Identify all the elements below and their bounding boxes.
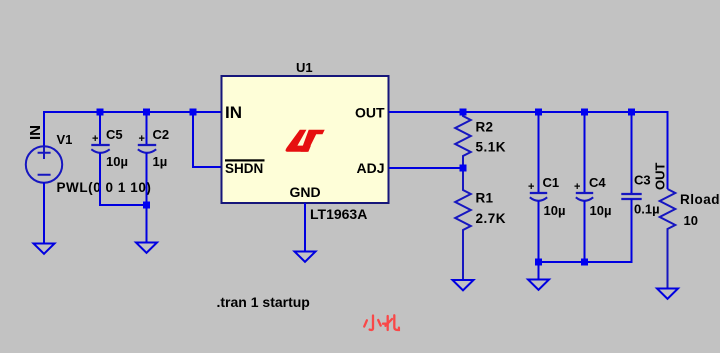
node junction bottom rail C4 [581, 259, 588, 266]
label Rload value [684, 213, 698, 228]
svg-text:+: + [92, 133, 98, 145]
ground (V1) [34, 244, 55, 254]
wire C5 bottom stub [100, 153, 147, 205]
svg-text:GND: GND [289, 184, 320, 200]
node junction OUT rail C4 [581, 109, 588, 116]
svg-text:C3: C3 [634, 173, 651, 188]
wire caps ground drop [538, 261, 540, 280]
spice directive .tran [217, 294, 310, 310]
net label IN [27, 125, 44, 140]
svg-text:10µ: 10µ [106, 154, 128, 169]
svg-text:PWL(0 0 1 10): PWL(0 0 1 10) [57, 180, 152, 195]
resistor R2 [455, 112, 471, 168]
svg-text:0.1µ: 0.1µ [634, 202, 660, 217]
wire top rail from V1 to IC IN [44, 111, 221, 113]
svg-text:10µ: 10µ [544, 203, 566, 218]
node junction OUT rail C3 [628, 109, 635, 116]
svg-text:10µ: 10µ [590, 203, 612, 218]
label R1 value [476, 211, 507, 226]
svg-text:ADJ: ADJ [356, 160, 384, 176]
ground (C1 C4 C3) [528, 280, 549, 290]
label C3 value [634, 202, 660, 217]
wire C3 drop [631, 112, 633, 194]
svg-text:C5: C5 [106, 127, 123, 142]
svg-text:2.7K: 2.7K [476, 211, 507, 226]
svg-text:IN: IN [27, 125, 44, 140]
svg-text:U1: U1 [296, 60, 313, 75]
pin OUT [355, 105, 385, 121]
svg-text:C4: C4 [589, 175, 606, 190]
wire C4 bottom [584, 201, 586, 261]
node junction top rail SHDN [190, 109, 197, 116]
svg-text:Rload: Rload [680, 192, 720, 207]
pin SHDN [225, 159, 265, 176]
net label OUT [653, 163, 668, 191]
label R2 value [476, 140, 507, 155]
label U1 [296, 60, 313, 75]
resistor Rload [660, 189, 676, 289]
svg-text:+: + [139, 133, 145, 145]
svg-text:+: + [528, 181, 534, 193]
capacitor C1 [528, 181, 547, 201]
node junction OUT rail R2 [460, 109, 467, 116]
svg-text:10: 10 [684, 213, 698, 228]
svg-text:OUT: OUT [355, 105, 385, 121]
svg-text:+: + [574, 181, 580, 193]
pin ADJ [356, 160, 384, 176]
label C5 [106, 127, 123, 142]
wire SHDN tee [193, 112, 221, 167]
svg-text:C1: C1 [543, 175, 560, 190]
wire GND pin to ground [304, 203, 306, 252]
ground (Rload) [657, 289, 678, 299]
node junction top rail C5 [97, 109, 104, 116]
op-amp U1 LT1963A body [222, 76, 389, 203]
svg-text:R2: R2 [476, 120, 494, 135]
label LT1963A [310, 206, 367, 222]
svg-text:R1: R1 [476, 191, 494, 206]
wire C5 drop [99, 112, 101, 145]
node junction ADJ divider [460, 165, 467, 172]
voltage source V1 [26, 146, 62, 182]
svg-text:OUT: OUT [653, 163, 668, 191]
label C4 [589, 175, 606, 190]
wire C1 drop [538, 112, 540, 193]
svg-text:5.1K: 5.1K [476, 140, 507, 155]
capacitor C5 [91, 133, 109, 153]
ground (U1 GND) [295, 252, 316, 262]
label C2 value [153, 154, 168, 169]
capacitor C2 [138, 133, 156, 153]
wire C3 bottom [539, 199, 632, 262]
label V1 [57, 132, 73, 147]
watermark 小北 [364, 315, 399, 330]
capacitor C4 [574, 181, 593, 201]
ground (C5 C2) [136, 243, 157, 253]
wire C1 bottom [538, 201, 540, 261]
LT logo [286, 130, 325, 152]
wire V1 to ground [43, 183, 45, 244]
svg-text:IN: IN [225, 103, 242, 122]
label C3 [634, 173, 651, 188]
node junction top rail C2 [143, 109, 150, 116]
wire OUT rail [389, 112, 668, 189]
node junction OUT rail C1 [535, 109, 542, 116]
label C5 value [106, 154, 128, 169]
svg-text:.tran 1 startup: .tran 1 startup [217, 294, 310, 310]
label C2 [153, 127, 170, 142]
wire C2 to ground [146, 153, 148, 243]
ground (R1) [453, 280, 474, 290]
label R2 [476, 120, 494, 135]
wire ADJ to divider [389, 167, 463, 169]
capacitor C3 [621, 194, 641, 199]
label C4 value [590, 203, 612, 218]
svg-text:V1: V1 [57, 132, 73, 147]
svg-text:1µ: 1µ [153, 154, 168, 169]
pin GND [289, 184, 320, 200]
label C1 [543, 175, 560, 190]
svg-text:SHDN: SHDN [225, 161, 263, 176]
wire C4 drop [584, 112, 586, 193]
svg-text:C2: C2 [153, 127, 170, 142]
wire V1 top stub [43, 111, 45, 147]
node junction bottom rail C1 [535, 259, 542, 266]
resistor R1 [455, 168, 471, 280]
label C1 value [544, 203, 566, 218]
node junction C5 C2 bottom [143, 202, 150, 209]
label PWL value [57, 180, 152, 195]
svg-text:LT1963A: LT1963A [310, 206, 367, 222]
wire C2 drop [146, 112, 148, 145]
pin IN [225, 103, 242, 122]
label R1 [476, 191, 494, 206]
label Rload [680, 192, 720, 207]
